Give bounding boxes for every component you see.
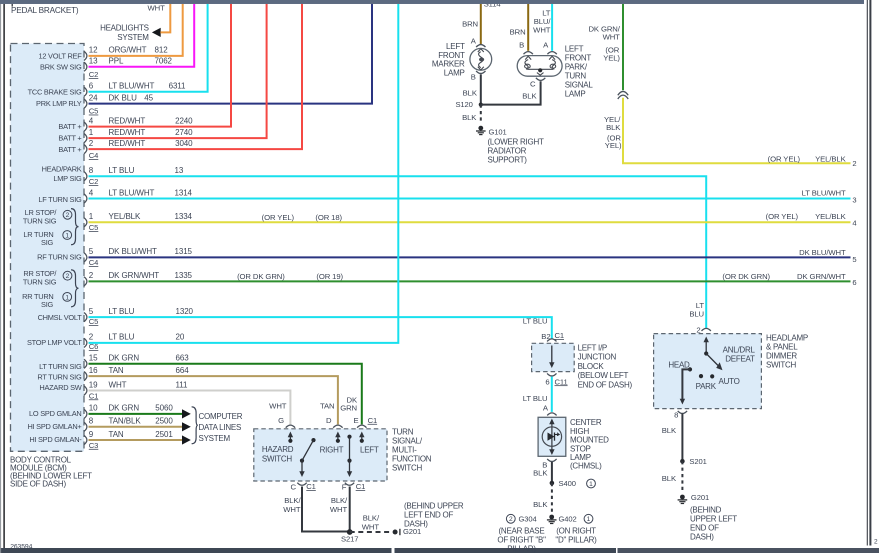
svg-text:2501: 2501: [155, 430, 173, 439]
svg-text:15: 15: [89, 354, 98, 363]
svg-text:DK BLU/WHT: DK BLU/WHT: [799, 248, 846, 257]
svg-text:5: 5: [89, 247, 94, 256]
svg-text:RF TURN SIG: RF TURN SIG: [37, 253, 82, 262]
svg-text:4: 4: [89, 188, 94, 197]
svg-text:TURN: TURN: [392, 427, 414, 436]
svg-text:3040: 3040: [175, 139, 193, 148]
svg-text:HI SPD GMLAN+: HI SPD GMLAN+: [27, 422, 81, 431]
svg-text:YEL/BLK: YEL/BLK: [109, 212, 142, 221]
svg-text:19: 19: [89, 380, 98, 389]
svg-text:1315: 1315: [175, 247, 193, 256]
svg-text:HAZARD SW: HAZARD SW: [39, 383, 81, 392]
svg-text:5060: 5060: [155, 404, 173, 413]
svg-text:LAMP: LAMP: [444, 69, 465, 78]
svg-text:LT BLU: LT BLU: [523, 394, 548, 403]
svg-text:HEAD/PARK: HEAD/PARK: [42, 164, 82, 173]
svg-text:"D" PILLAR): "D" PILLAR): [555, 536, 597, 545]
svg-text:1: 1: [65, 294, 69, 301]
svg-text:SWITCH: SWITCH: [766, 361, 797, 370]
svg-text:7062: 7062: [155, 57, 173, 66]
svg-text:3: 3: [852, 195, 856, 204]
svg-text:END OF: END OF: [690, 523, 719, 532]
svg-text:2: 2: [89, 333, 94, 342]
svg-text:1320: 1320: [176, 307, 194, 316]
svg-text:13: 13: [89, 57, 98, 66]
svg-text:LT BLU/WHT: LT BLU/WHT: [109, 188, 155, 197]
svg-text:LT BLU: LT BLU: [109, 166, 135, 175]
svg-text:12: 12: [89, 46, 98, 55]
svg-text:RADIATOR: RADIATOR: [488, 147, 527, 156]
svg-text:(BEHIND UPPER: (BEHIND UPPER: [404, 502, 464, 511]
svg-text:RED/WHT: RED/WHT: [109, 128, 146, 137]
svg-text:2: 2: [66, 273, 70, 280]
svg-text:MOUNTED: MOUNTED: [570, 436, 609, 445]
svg-text:MARKER: MARKER: [432, 60, 465, 69]
svg-text:2240: 2240: [175, 116, 193, 125]
svg-text:TAN/BLK: TAN/BLK: [109, 417, 142, 426]
svg-text:(OR YEL): (OR YEL): [262, 213, 295, 222]
svg-text:YEL/BLK: YEL/BLK: [815, 154, 846, 163]
svg-text:SWITCH: SWITCH: [262, 455, 293, 464]
svg-text:BATT +: BATT +: [58, 122, 81, 131]
svg-text:8: 8: [674, 410, 678, 419]
svg-text:HEADLAMP: HEADLAMP: [766, 334, 808, 343]
svg-text:DK GRN: DK GRN: [109, 404, 140, 413]
svg-text:DASH): DASH): [404, 520, 428, 529]
svg-text:PARK: PARK: [696, 382, 717, 391]
svg-text:BLK/: BLK/: [284, 496, 301, 505]
svg-text:(OR YEL): (OR YEL): [768, 154, 801, 163]
svg-text:ANL/DRL: ANL/DRL: [723, 346, 756, 355]
svg-text:CHMSL VOLT: CHMSL VOLT: [38, 313, 83, 322]
svg-text:6311: 6311: [169, 82, 186, 91]
svg-text:TAN: TAN: [109, 366, 124, 375]
svg-text:CENTER: CENTER: [570, 418, 602, 427]
svg-text:TAN: TAN: [109, 430, 124, 439]
svg-text:LAMP: LAMP: [570, 453, 591, 462]
svg-text:SWITCH: SWITCH: [392, 463, 423, 472]
svg-text:1: 1: [65, 232, 69, 239]
svg-text:SIDE OF DASH): SIDE OF DASH): [10, 480, 66, 489]
svg-text:SIG: SIG: [41, 300, 53, 309]
svg-text:BLK: BLK: [533, 468, 548, 477]
svg-text:1334: 1334: [175, 212, 193, 221]
svg-text:BLK: BLK: [533, 500, 548, 509]
svg-text:C5: C5: [89, 107, 99, 116]
svg-text:GRN: GRN: [340, 404, 357, 413]
svg-text:(OR 18): (OR 18): [315, 213, 342, 222]
svg-text:(OR YEL): (OR YEL): [766, 212, 799, 221]
svg-text:WHT: WHT: [603, 33, 621, 42]
svg-text:664: 664: [176, 366, 190, 375]
svg-text:C11: C11: [555, 377, 568, 386]
svg-text:HAZARD: HAZARD: [262, 445, 294, 454]
svg-text:BLOCK: BLOCK: [578, 362, 605, 371]
svg-text:WHT: WHT: [109, 380, 127, 389]
svg-text:END OF DASH): END OF DASH): [578, 381, 633, 390]
svg-text:HEADLIGHTS: HEADLIGHTS: [100, 23, 149, 32]
svg-text:1: 1: [589, 481, 593, 488]
svg-text:SUPPORT): SUPPORT): [488, 156, 528, 165]
svg-text:SIGNAL: SIGNAL: [565, 81, 594, 90]
svg-text:PEDAL BRACKET): PEDAL BRACKET): [11, 6, 79, 15]
svg-text:5: 5: [852, 255, 856, 264]
svg-text:2500: 2500: [155, 417, 173, 426]
svg-text:TAN: TAN: [320, 402, 335, 411]
svg-text:C4: C4: [89, 151, 99, 160]
svg-text:(LOWER RIGHT: (LOWER RIGHT: [488, 138, 544, 147]
svg-text:LAMP: LAMP: [565, 90, 586, 99]
svg-text:LT BLU/WHT: LT BLU/WHT: [109, 82, 155, 91]
svg-text:MULTI-: MULTI-: [392, 445, 417, 454]
svg-text:UPPER LEFT: UPPER LEFT: [690, 514, 737, 523]
svg-text:C5: C5: [89, 317, 99, 326]
svg-text:DK BLU: DK BLU: [109, 93, 138, 102]
svg-text:LO SPD GMLAN: LO SPD GMLAN: [29, 409, 81, 418]
svg-text:& PANEL: & PANEL: [766, 343, 798, 352]
svg-text:G201: G201: [691, 493, 709, 502]
svg-text:BLK: BLK: [522, 92, 537, 101]
svg-text:(OR DK GRN): (OR DK GRN): [722, 272, 770, 281]
svg-text:LT BLU: LT BLU: [523, 316, 548, 325]
svg-text:LEFT: LEFT: [565, 45, 584, 54]
svg-text:BLK: BLK: [606, 123, 621, 132]
svg-text:6: 6: [852, 278, 856, 287]
svg-text:COMPUTER: COMPUTER: [199, 412, 243, 421]
svg-text:(BEHIND: (BEHIND: [690, 505, 722, 514]
svg-text:DATA LINES: DATA LINES: [199, 423, 242, 432]
svg-text:BLK/: BLK/: [363, 514, 380, 523]
svg-text:BRK SW SIG: BRK SW SIG: [40, 63, 82, 72]
svg-text:111: 111: [176, 380, 189, 389]
svg-text:G304: G304: [519, 514, 537, 523]
svg-text:(BELOW LEFT: (BELOW LEFT: [578, 371, 629, 380]
svg-text:LEFT I/P: LEFT I/P: [578, 343, 607, 352]
svg-text:C: C: [291, 482, 297, 491]
svg-text:BRN: BRN: [462, 20, 478, 29]
svg-text:SYSTEM: SYSTEM: [117, 33, 149, 42]
svg-text:PPL: PPL: [109, 57, 124, 66]
svg-text:S201: S201: [689, 457, 706, 466]
svg-text:DK GRN: DK GRN: [109, 354, 140, 363]
svg-text:(OR DK GRN): (OR DK GRN): [237, 272, 285, 281]
svg-text:BLK: BLK: [662, 426, 677, 435]
svg-text:24: 24: [89, 93, 98, 102]
svg-text:BLK: BLK: [662, 474, 677, 483]
svg-text:WHT: WHT: [533, 26, 551, 35]
svg-text:2: 2: [89, 271, 94, 280]
svg-text:4: 4: [89, 116, 94, 125]
svg-text:LEFT: LEFT: [360, 446, 379, 455]
svg-text:1: 1: [587, 516, 591, 523]
svg-text:LT BLU/WHT: LT BLU/WHT: [802, 189, 846, 198]
svg-text:LEFT END OF: LEFT END OF: [404, 511, 453, 520]
svg-text:LT BLU: LT BLU: [109, 333, 135, 342]
svg-text:(NEAR BASE: (NEAR BASE: [499, 527, 545, 536]
svg-text:5: 5: [89, 307, 94, 316]
svg-text:G101: G101: [489, 128, 507, 137]
svg-text:PARK/: PARK/: [565, 63, 588, 72]
svg-text:BLK: BLK: [462, 113, 477, 122]
svg-text:C2: C2: [89, 70, 99, 79]
svg-text:YEL): YEL): [603, 54, 620, 63]
svg-text:C2: C2: [89, 177, 99, 186]
svg-text:13: 13: [175, 166, 184, 175]
svg-text:1335: 1335: [175, 271, 193, 280]
svg-text:C1: C1: [368, 416, 378, 425]
svg-text:ORG/WHT: ORG/WHT: [109, 46, 147, 55]
svg-text:C1: C1: [356, 482, 366, 491]
svg-text:WHT: WHT: [362, 523, 380, 532]
svg-text:C1: C1: [555, 331, 565, 340]
svg-text:LMP SIG: LMP SIG: [53, 174, 82, 183]
svg-text:C: C: [530, 80, 536, 89]
svg-text:1: 1: [89, 128, 94, 137]
svg-text:9: 9: [89, 430, 94, 439]
svg-text:663: 663: [176, 354, 190, 363]
svg-text:WHT: WHT: [147, 3, 165, 12]
svg-text:STOP LMP VOLT: STOP LMP VOLT: [27, 338, 82, 347]
svg-text:10: 10: [89, 404, 98, 413]
svg-text:8: 8: [89, 166, 94, 175]
svg-text:6: 6: [89, 82, 94, 91]
svg-text:DIMMER: DIMMER: [766, 352, 797, 361]
svg-text:DK GRN/WHT: DK GRN/WHT: [797, 272, 846, 281]
svg-text:(ON RIGHT: (ON RIGHT: [556, 527, 596, 536]
svg-text:B: B: [471, 73, 476, 82]
svg-text:AUTO: AUTO: [719, 377, 740, 386]
svg-text:2: 2: [66, 212, 70, 219]
svg-text:DEFEAT: DEFEAT: [725, 354, 755, 363]
svg-text:S217: S217: [341, 535, 358, 544]
svg-text:SIG: SIG: [41, 238, 53, 247]
svg-text:HEAD: HEAD: [668, 361, 690, 370]
svg-text:(CHMSL): (CHMSL): [570, 462, 602, 471]
svg-text:LT BLU: LT BLU: [109, 307, 135, 316]
svg-text:YEL/BLK: YEL/BLK: [815, 212, 846, 221]
svg-text:BLK: BLK: [463, 89, 478, 98]
svg-text:F: F: [342, 482, 347, 491]
svg-text:BLK/: BLK/: [331, 496, 348, 505]
svg-text:S400: S400: [559, 479, 576, 488]
svg-text:TURN SIG: TURN SIG: [23, 278, 57, 287]
svg-text:2: 2: [874, 539, 878, 546]
svg-text:WHT: WHT: [330, 505, 348, 514]
svg-text:C1: C1: [306, 482, 316, 491]
svg-text:S120: S120: [455, 100, 472, 109]
svg-text:12 VOLT REF: 12 VOLT REF: [39, 52, 83, 61]
svg-text:LT TURN SIG: LT TURN SIG: [39, 362, 82, 371]
svg-text:DASH): DASH): [690, 532, 714, 541]
svg-text:BRN: BRN: [510, 27, 526, 36]
svg-text:8: 8: [89, 417, 94, 426]
svg-text:LF TURN SIG: LF TURN SIG: [38, 195, 82, 204]
svg-text:C6: C6: [89, 342, 99, 351]
svg-text:DK BLU/WHT: DK BLU/WHT: [109, 247, 158, 256]
svg-text:2: 2: [89, 139, 94, 148]
svg-text:PILLAR): PILLAR): [507, 545, 536, 554]
svg-text:2: 2: [852, 159, 856, 168]
svg-text:1: 1: [89, 212, 94, 221]
svg-text:FRONT: FRONT: [438, 51, 465, 60]
svg-text:812: 812: [155, 46, 169, 55]
svg-text:C4: C4: [89, 258, 99, 267]
svg-text:FRONT: FRONT: [565, 54, 592, 63]
svg-text:E: E: [353, 416, 358, 425]
svg-text:TURN: TURN: [565, 72, 587, 81]
svg-text:B: B: [519, 41, 524, 50]
svg-text:WHT: WHT: [283, 505, 301, 514]
svg-text:G: G: [278, 416, 284, 425]
svg-text:LEFT: LEFT: [446, 42, 465, 51]
svg-text:OF RIGHT "B": OF RIGHT "B": [497, 536, 546, 545]
svg-text:BATT +: BATT +: [58, 145, 81, 154]
svg-text:6: 6: [545, 377, 549, 386]
svg-text:SIGNAL/: SIGNAL/: [392, 436, 423, 445]
svg-text:JUNCTION: JUNCTION: [578, 353, 617, 362]
svg-text:45: 45: [144, 93, 153, 102]
svg-text:TCC BRAKE SIG: TCC BRAKE SIG: [28, 88, 82, 97]
svg-text:YEL): YEL): [605, 141, 622, 150]
svg-text:2: 2: [509, 516, 513, 523]
svg-text:WHT: WHT: [269, 402, 287, 411]
svg-text:RED/WHT: RED/WHT: [109, 116, 146, 125]
svg-text:G402: G402: [559, 514, 577, 523]
svg-text:RIGHT: RIGHT: [320, 446, 344, 455]
svg-text:1314: 1314: [175, 188, 193, 197]
svg-text:BLU: BLU: [689, 310, 704, 319]
svg-text:16: 16: [89, 366, 98, 375]
svg-text:C1: C1: [89, 391, 99, 400]
svg-text:2740: 2740: [175, 128, 193, 137]
svg-text:4: 4: [852, 219, 856, 228]
svg-text:HIGH: HIGH: [570, 427, 589, 436]
svg-text:PRK LMP RLY: PRK LMP RLY: [36, 99, 82, 108]
svg-text:BATT +: BATT +: [58, 134, 81, 143]
svg-text:C3: C3: [89, 441, 99, 450]
svg-text:263594: 263594: [10, 544, 32, 551]
svg-text:20: 20: [176, 333, 185, 342]
svg-text:RT TURN SIG: RT TURN SIG: [37, 373, 82, 382]
svg-text:D: D: [326, 416, 332, 425]
svg-text:C5: C5: [89, 223, 99, 232]
svg-text:RED/WHT: RED/WHT: [109, 139, 146, 148]
svg-text:SYSTEM: SYSTEM: [199, 434, 231, 443]
svg-text:FUNCTION: FUNCTION: [392, 454, 432, 463]
svg-text:HI SPD GMLAN-: HI SPD GMLAN-: [29, 435, 82, 444]
svg-text:DK GRN/WHT: DK GRN/WHT: [109, 271, 160, 280]
svg-text:STOP: STOP: [570, 444, 591, 453]
svg-text:TURN SIG: TURN SIG: [23, 217, 57, 226]
svg-text:(OR 19): (OR 19): [316, 272, 343, 281]
